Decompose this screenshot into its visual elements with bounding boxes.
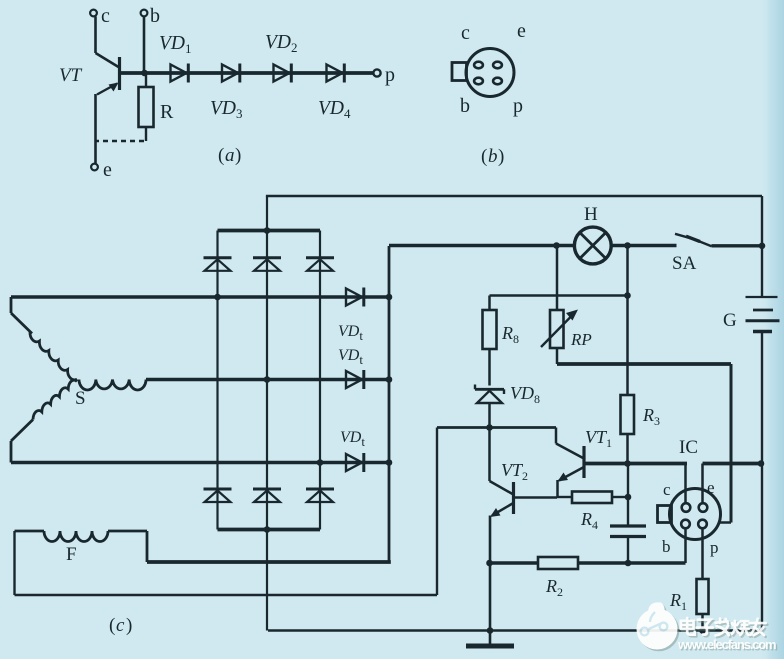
svg-text:R: R [160,101,174,123]
svg-text:SA: SA [672,253,697,274]
svg-text:): ) [235,145,241,166]
svg-text:(: ( [481,146,487,167]
svg-text:): ) [126,615,132,636]
svg-text:RP: RP [570,330,592,349]
svg-text:c: c [663,480,671,499]
svg-text:e: e [517,20,526,42]
svg-text:VT: VT [59,65,83,86]
svg-text:b: b [150,5,160,27]
svg-text:p: p [710,538,719,557]
svg-text:b: b [460,95,470,117]
svg-text:p: p [513,95,523,117]
svg-text:F: F [66,544,77,565]
svg-text:e: e [707,478,715,497]
svg-text:a: a [225,145,235,166]
svg-text:c: c [101,5,110,27]
svg-text:S: S [75,388,86,409]
svg-text:(: ( [109,615,115,636]
svg-text:IC: IC [679,437,698,458]
svg-text:): ) [498,146,504,167]
svg-text:(: ( [218,145,224,166]
svg-text:www.elecfans.com: www.elecfans.com [677,637,776,652]
svg-text:c: c [461,22,470,44]
svg-text:G: G [723,310,737,331]
svg-text:b: b [662,537,671,556]
svg-text:p: p [385,64,395,86]
svg-text:H: H [584,204,598,225]
svg-text:c: c [116,615,125,636]
svg-text:e: e [103,159,112,181]
svg-text:b: b [488,146,498,167]
